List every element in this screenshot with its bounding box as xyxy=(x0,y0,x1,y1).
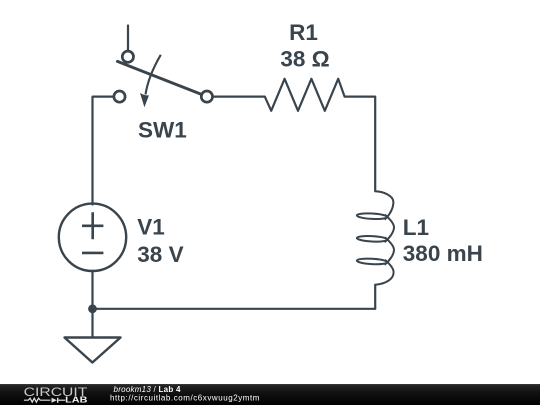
svg-text:V1: V1 xyxy=(137,214,165,239)
svg-text:http://circuitlab.com/c6xvwuug: http://circuitlab.com/c6xvwuug2ymtm xyxy=(110,394,260,403)
svg-text:SW1: SW1 xyxy=(138,118,187,143)
svg-text:R1: R1 xyxy=(289,20,318,45)
svg-text:380 mH: 380 mH xyxy=(403,241,483,266)
svg-text:38 Ω: 38 Ω xyxy=(280,46,329,71)
svg-text:38 V: 38 V xyxy=(137,242,183,267)
svg-text:L1: L1 xyxy=(403,215,429,240)
svg-text:LAB: LAB xyxy=(65,396,87,405)
